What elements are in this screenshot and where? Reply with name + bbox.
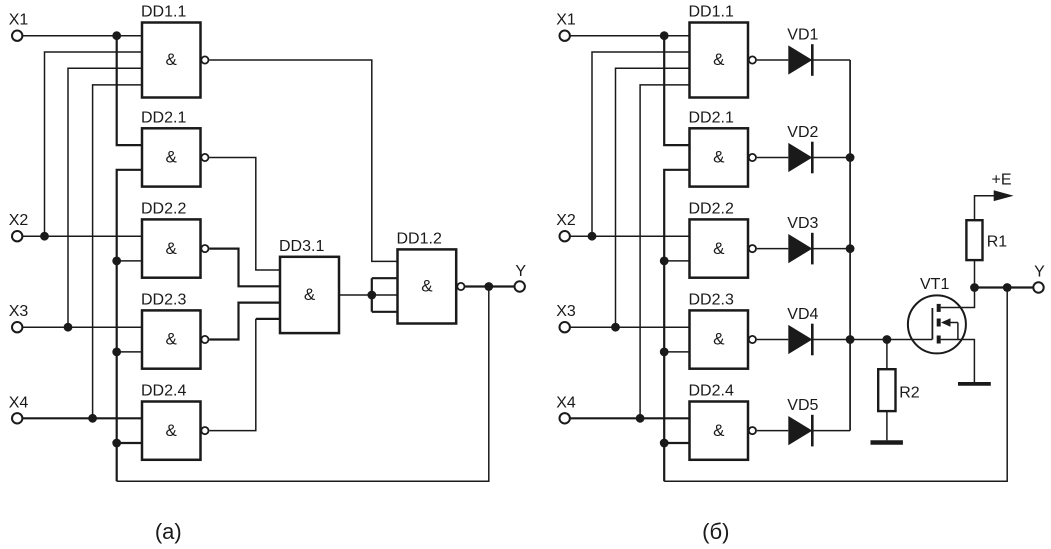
svg-text:DD1.2: DD1.2 (397, 230, 442, 247)
junction feedback bus at DD2.3 (112, 348, 121, 357)
svg-text:DD1.1: DD1.1 (689, 4, 734, 21)
svg-text:VD1: VD1 (787, 26, 818, 43)
junction VT1 drain node (970, 283, 979, 292)
wire X3 riser to DD1.1 pin 3 (68, 68, 142, 327)
wire R2 to ground (886, 411, 888, 440)
wire feedback bus to DD2.1 pin 2 (117, 170, 142, 482)
wire X1 (b) to DD1.1 pin 1 (570, 35, 689, 37)
inverter bubble DD2.1 output (201, 154, 208, 161)
svg-text:X3: X3 (556, 303, 576, 320)
ground bar under R2 (871, 440, 903, 444)
inverter bubble DD1.1 (b) output (749, 56, 756, 63)
junction feedback bus (b) at DD2.4 (660, 439, 669, 448)
inverter bubble DD2.3 (b) output (749, 336, 756, 343)
wire VT1 source to ground (941, 340, 975, 383)
resistor R2 (878, 369, 920, 411)
wire X1 to DD1.1 pin 1 (23, 35, 142, 37)
junction feedback bus at DD2.2 (112, 257, 121, 266)
svg-text:Y: Y (515, 263, 526, 280)
input terminal X4 (b) (556, 394, 576, 423)
svg-text:(а): (а) (155, 519, 182, 544)
junction feedback bus at DD2.4 (112, 439, 121, 448)
svg-text:VD2: VD2 (787, 124, 818, 141)
svg-text:&: & (713, 239, 725, 258)
svg-text:&: & (166, 50, 178, 69)
inverter bubble DD2.2 (b) output (749, 245, 756, 252)
wire DD1.1 (b) output to diode VD1 (757, 59, 789, 61)
svg-text:DD1.1: DD1.1 (141, 4, 186, 21)
diode VD3 (787, 215, 818, 265)
svg-text:&: & (166, 239, 178, 258)
wire X1 bus to DD2.1 pin 1 (117, 36, 142, 145)
svg-text:X2: X2 (556, 212, 576, 229)
svg-text:&: & (421, 277, 433, 296)
svg-text:X1: X1 (556, 12, 576, 29)
junction X1 (b) node (660, 31, 669, 40)
junction output Y node (484, 282, 493, 291)
and gate DD2.2 (141, 200, 201, 277)
wire DD2.4 stub to DD3.1 pin 4 (256, 318, 280, 320)
and gate DD1.1 (141, 4, 201, 98)
wire X4 to DD2.4 pin 1 (23, 417, 142, 419)
transistor VT1 (MOSFET) (908, 276, 966, 353)
svg-text:DD2.1: DD2.1 (689, 109, 734, 126)
and gate DD2.1 (141, 109, 201, 186)
wire DD3.1 output branch to DD1.2 pins 2 and 4 (372, 278, 398, 312)
wire R1 to drain node (974, 260, 976, 287)
wire X1 (b) bus to DD2.1 pin 1 (664, 36, 689, 145)
and gate DD1.2 (397, 230, 457, 323)
output terminal Y (b) (1033, 264, 1045, 293)
junction X2 node (40, 232, 49, 241)
svg-text:X3: X3 (9, 303, 29, 320)
input terminal X2 (9, 212, 29, 241)
inverter bubble DD2.2 output (201, 245, 208, 252)
junction DD3.1 output node (367, 291, 376, 300)
inverter bubble DD1.1 output (201, 56, 208, 63)
svg-text:DD2.3: DD2.3 (689, 291, 734, 308)
inverter bubble DD2.4 output (201, 427, 208, 434)
power symbol +E (992, 172, 1014, 202)
wire DD2.4 (b) output to diode VD5 (757, 430, 789, 432)
wire stub to DD2.3 pin 2 (117, 351, 142, 353)
wire X4 riser to DD1.1 pin 4 (93, 85, 142, 418)
junction X2 (b) node (588, 232, 597, 241)
svg-text:X2: X2 (9, 212, 29, 229)
svg-text:R1: R1 (987, 234, 1008, 251)
svg-text:X1: X1 (9, 12, 29, 29)
junction Y (b) feedback node (1003, 283, 1012, 292)
wire X2 (b) to DD2.2 pin 1 (570, 235, 689, 237)
junction feedback bus (b) at DD2.3 (660, 348, 669, 357)
input terminal X2 (b) (556, 212, 576, 241)
and gate DD1.1 (b) (689, 4, 749, 98)
wire diode VD4 cathode to VT1 gate (812, 339, 932, 341)
wire DD2.1 output to DD3.1 pin 1 (209, 158, 280, 271)
wire X4 (b) to DD2.4 pin 1 (570, 417, 689, 419)
and gate DD2.4 (141, 383, 201, 460)
svg-text:DD2.2: DD2.2 (689, 200, 734, 217)
wire drain node to terminal Y (b) (975, 286, 1034, 288)
wire feedback from Y to bus (117, 287, 489, 482)
output terminal Y (515, 263, 527, 292)
svg-text:Y: Y (1034, 264, 1045, 281)
svg-text:&: & (166, 421, 178, 440)
wire R1 to supply +E (975, 196, 995, 221)
inverter bubble DD2.1 (b) output (749, 154, 756, 161)
input terminal X3 (b) (556, 303, 576, 332)
wire feedback bus (b) to DD2.1 pin 2 (664, 170, 689, 482)
wire DD2.2 (b) output to diode VD3 (757, 248, 789, 250)
wire DD2.4 output to DD3.1 pin 4 (209, 319, 256, 431)
diode VD4 (787, 306, 818, 356)
junction diode bus node (846, 335, 855, 344)
diode VD2 (787, 124, 818, 174)
svg-text:R2: R2 (899, 385, 920, 402)
svg-text:DD2.2: DD2.2 (141, 200, 186, 217)
wire DD2.2 output to DD3.1 pin 2 (209, 249, 280, 287)
and gate DD2.3 (b) (689, 291, 749, 368)
svg-text:+E: +E (992, 172, 1012, 189)
wire diode-or bus (849, 60, 851, 431)
junction X3 (b) node (611, 323, 620, 332)
svg-text:&: & (713, 50, 725, 69)
svg-text:&: & (713, 421, 725, 440)
wire R2 to gate net (886, 340, 888, 370)
ground bar under VT1 source (958, 382, 991, 386)
junction X4 node (88, 414, 97, 423)
resistor R1 (966, 220, 1007, 260)
wire X4 (b) riser to DD1.1 pin 4 (640, 85, 689, 418)
wire diode VD2 cathode to bus (812, 157, 850, 159)
inverter bubble DD2.3 output (201, 336, 208, 343)
wire DD2.3 (b) output to diode VD4 (757, 339, 789, 341)
and gate DD2.3 (141, 291, 201, 368)
junction feedback bus (b) at DD2.2 (660, 257, 669, 266)
junction R2 tap node (883, 335, 892, 344)
svg-text:&: & (713, 330, 725, 349)
wire diode VD5 cathode to bus (812, 430, 850, 432)
and gate DD2.1 (b) (689, 109, 749, 186)
wire stub (b) to DD2.3 pin 2 (664, 351, 689, 353)
svg-text:&: & (166, 330, 178, 349)
diode VD1 (787, 26, 818, 76)
inverter bubble DD2.4 (b) output (749, 427, 756, 434)
svg-text:&: & (166, 148, 178, 167)
and gate DD2.4 (b) (689, 383, 749, 460)
wire X2 riser to DD1.1 pin 2 (45, 52, 143, 236)
svg-text:DD2.1: DD2.1 (141, 109, 186, 126)
svg-text:VD4: VD4 (787, 306, 818, 323)
input terminal X3 (9, 303, 29, 332)
wire stub (b) to DD2.2 pin 2 (664, 260, 689, 262)
wire DD2.1 (b) output to diode VD2 (757, 157, 789, 159)
diode VD5 (787, 397, 818, 447)
and gate DD3.1 (279, 238, 339, 333)
wire DD1.2 output to terminal Y (465, 285, 514, 287)
and gate DD2.2 (b) (689, 200, 749, 277)
wire diode VD3 cathode to bus (812, 248, 850, 250)
svg-text:DD2.3: DD2.3 (141, 291, 186, 308)
wire X2 (b) riser to DD1.1 pin 2 (592, 52, 690, 236)
junction diode bus node (846, 244, 855, 253)
svg-text:VT1: VT1 (920, 276, 949, 293)
wire stub to DD2.4 pin 2 (117, 442, 142, 444)
wire X3 to DD2.3 pin 1 (23, 326, 142, 328)
svg-text:DD2.4: DD2.4 (141, 383, 186, 400)
svg-text:DD2.4: DD2.4 (689, 383, 734, 400)
svg-text:X4: X4 (556, 394, 576, 411)
wire stub (b) to DD2.4 pin 2 (664, 442, 689, 444)
inverter bubble DD1.2 output (457, 283, 464, 290)
svg-text:X4: X4 (9, 394, 29, 411)
junction diode bus node (846, 153, 855, 162)
svg-text:VD5: VD5 (787, 397, 818, 414)
svg-text:&: & (304, 285, 316, 304)
input terminal X4 (9, 394, 29, 423)
svg-text:DD3.1: DD3.1 (279, 238, 324, 255)
wire diode VD1 cathode to bus (812, 59, 850, 61)
junction X3 node (64, 323, 73, 332)
wire X3 (b) to DD2.3 pin 1 (570, 326, 689, 328)
svg-text:(б): (б) (702, 519, 729, 544)
wire DD2.3 output to DD3.1 pin 3 (209, 303, 280, 340)
wire VT1 drain (941, 288, 975, 308)
input terminal X1 (9, 12, 29, 41)
wire feedback from Y (b) to bus (664, 288, 1007, 482)
junction X4 (b) node (636, 414, 645, 423)
input terminal X1 (b) (556, 12, 576, 41)
wire stub to DD2.2 pin 2 (117, 260, 142, 262)
svg-text:&: & (713, 148, 725, 167)
wire X2 to DD2.2 pin 1 (23, 235, 142, 237)
wire X3 (b) riser to DD1.1 pin 3 (616, 68, 690, 327)
wire DD1.1 output to DD1.2 pin 1 (209, 60, 397, 261)
svg-text:VD3: VD3 (787, 215, 818, 232)
wire DD3.1 output to DD1.2 pin 3 (339, 294, 398, 296)
junction X1 node (112, 31, 121, 40)
